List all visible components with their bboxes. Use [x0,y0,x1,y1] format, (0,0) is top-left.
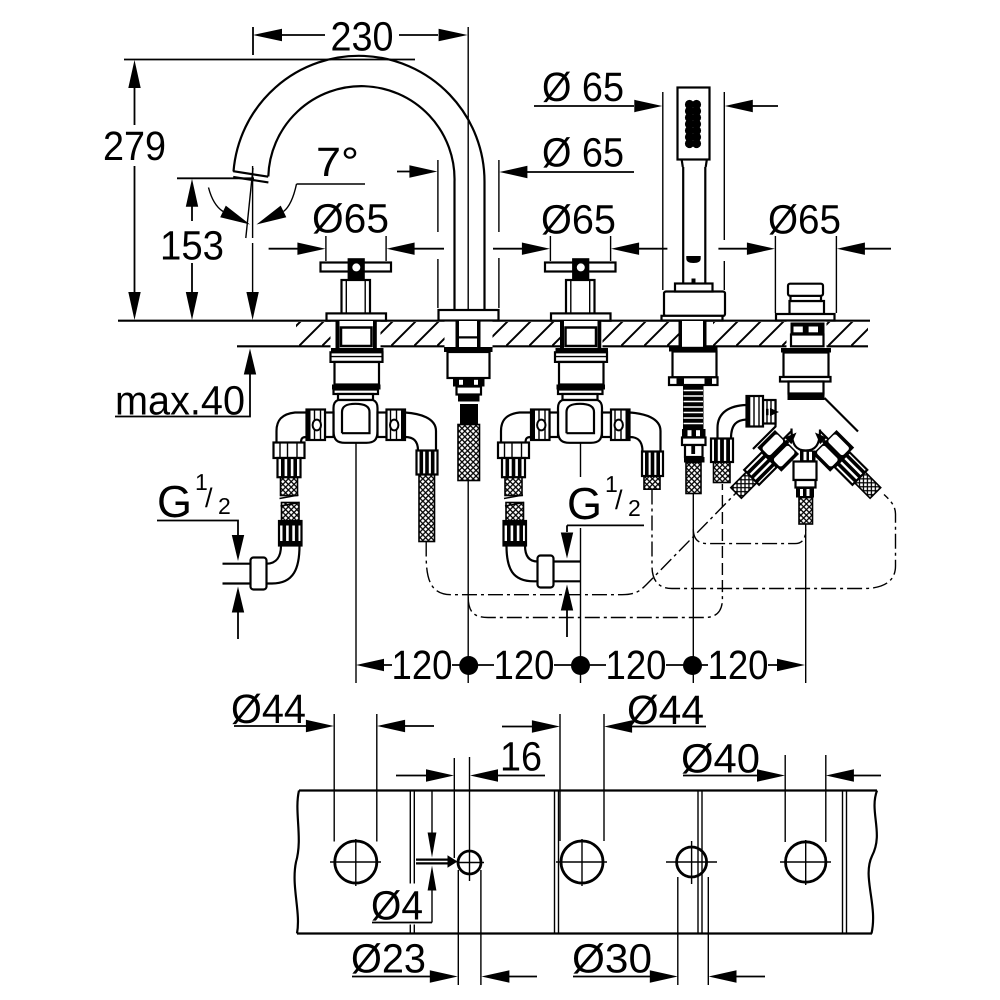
svg-text:2: 2 [218,493,231,519]
svg-text:120: 120 [494,642,555,688]
segment divider 3 [698,791,702,934]
svg-text:230: 230 [331,14,394,60]
routing line D: right valve to diverter right arm [652,490,896,589]
segment divider 4 [843,791,847,934]
left hose upper [281,477,298,495]
svg-text:16: 16 [500,734,542,780]
shower head [678,88,710,160]
right G1/2 union nut [538,556,554,588]
dimension D65 diverter [718,197,891,314]
spout escutcheon [439,310,499,321]
hole 3 (D44) [561,841,603,883]
diverter Y-body edges [753,398,858,449]
left elbow [277,413,307,444]
shower mounting block [673,352,717,378]
shower hose [686,463,701,494]
diverter body below deck [784,353,829,378]
D44 right dimension [502,687,706,841]
svg-text:Ø 65: Ø 65 [542,64,624,110]
diverter center line [805,524,807,683]
diverter side elbow nut [711,439,733,463]
hole 5 (D40) [786,842,826,882]
valve white collar [334,390,379,395]
segment divider 2 [555,791,559,934]
left valve deck opening walls [336,321,377,349]
dimension D65 spout escutcheon [397,130,634,309]
diverter left side port sleeve [763,400,776,424]
diverter cap [788,284,823,296]
bottom plan view of deck [231,686,881,985]
diverter side hose [714,462,731,483]
svg-text:Ø65: Ø65 [312,196,389,242]
left union nut [274,443,305,459]
deck / mounting surface [118,321,870,347]
svg-text:120: 120 [606,642,667,688]
diverter arch [792,429,821,451]
routing line C: shower supply to diverter center [693,529,805,544]
shower mounting flange [669,377,718,385]
band top line [299,789,877,791]
diverter below deck [711,323,887,684]
right valve escutcheon [551,313,611,320]
16 dimension [396,734,545,859]
valve shank body [335,362,380,385]
spout outlet cap (7 deg face) [233,171,268,182]
left valve cross handle [321,263,392,272]
left G1/2 port [223,564,251,584]
valve neck [338,394,373,400]
svg-text:/: / [615,485,623,515]
deck bottom line [237,345,868,347]
svg-text:Ø30: Ø30 [572,936,652,982]
deck top line [118,320,870,322]
left valve right compression fitting [417,451,438,475]
svg-text:120: 120 [708,642,769,688]
diverter side elbow [718,405,747,439]
label G 1/2 right [561,471,644,637]
hose break [280,495,300,506]
valve T-body [334,400,378,443]
max.40 dimension [115,349,256,424]
hole 4 (D30) [677,847,707,877]
spout (gooseneck) [233,56,498,321]
right valve body below deck [498,348,630,546]
diverter side port flow arrow [770,408,779,416]
shower handle [683,167,705,284]
svg-text:2: 2 [628,495,641,521]
svg-text:G: G [157,476,192,527]
left valve right hose [419,475,435,542]
shower deck opening walls [679,321,707,348]
diverter center hose [799,498,813,525]
D40 dimension [681,736,881,843]
valve cartridge arch [342,404,370,433]
hole 1 (D44) [335,841,377,883]
svg-text:7°: 7° [316,139,359,185]
shower head step [682,159,708,168]
valve black collar [332,385,381,390]
right hub nut [387,410,406,441]
valve shank black collar top [331,348,384,352]
spout tip projection line [246,243,258,320]
dimension D65 hand shower escutcheon [534,64,778,290]
right valve centerline [580,443,582,683]
D23 dimension [351,870,537,985]
svg-text:Ø 65: Ø 65 [542,130,624,176]
D30 dimension [572,877,765,985]
spout deck opening walls [456,321,481,348]
diverter flange black [781,348,831,353]
svg-text:Ø23: Ø23 [351,936,426,982]
shower hose nut [682,429,706,438]
svg-text:120: 120 [392,642,453,688]
svg-text:153: 153 [160,223,224,269]
diverter (above deck) [776,284,835,321]
diverter escutcheon [776,314,835,321]
left valve bottom elbow to G1/2 [267,546,300,584]
left valve stem [342,280,371,313]
shower cradle base [664,292,725,317]
left compression fitting [278,458,301,477]
left valve right elbow [405,413,436,451]
dimension 230 [253,14,468,60]
dimension D65 left valve [269,196,444,262]
right valve stem [566,280,595,313]
dimension D65 right valve [493,197,667,262]
right valve bottom elbow to G1/2 [507,546,538,582]
routing line A: left valve to diverter left arm [426,493,736,595]
left hose lower [282,503,300,522]
band bottom line [297,932,872,934]
hand shower (above deck) [662,88,726,321]
left sleeve [325,413,334,438]
diverter body [790,301,825,314]
left valve centerline [355,443,357,683]
spout centerline / 230 right extension [467,27,469,310]
dimension 279 [103,60,415,321]
deck hatch band [296,322,868,346]
D44 left dimension [231,686,434,842]
hand shower below deck [669,347,718,683]
right sleeve [378,413,387,438]
D4 dimension [371,791,458,929]
right valve right hose [644,476,660,489]
diverter center outlet fitting [800,451,816,462]
spout shank below deck [444,347,493,683]
shower hose body [685,445,703,457]
diverter shank in deck [791,323,825,335]
svg-text:279: 279 [103,123,166,169]
svg-text:/: / [205,483,213,513]
right valve deck opening walls [560,321,601,349]
shower handle spray stop [686,256,700,263]
left G1/2 union nut [251,558,267,590]
left lower fitting [279,521,302,546]
valve body below deck (shared shape), left valve [274,348,406,546]
left hub nut [307,410,326,441]
svg-text:Ø65: Ø65 [541,197,616,243]
shower supply line [692,494,694,684]
shower mounting black collar [669,347,718,352]
svg-text:G: G [567,478,602,529]
segment divider 1 [410,791,414,934]
right valve right elbow [630,413,661,452]
diverter right 45 arm [803,420,887,504]
valve shank lock nut [331,352,383,362]
diverter left side port nut [747,396,764,427]
hole 2 (D23) [458,851,481,874]
left valve (above deck) [321,258,392,320]
routing line B: spout supply to diverter side port [468,592,722,618]
left valve escutcheon [327,313,387,320]
right G1/2 port [554,562,581,582]
right valve cross handle [545,263,616,272]
shower head spray column [685,100,701,148]
right break line [869,791,877,934]
left break line [295,791,299,934]
dimension row 120x4 [356,642,805,688]
right valve (above deck) [545,258,616,320]
shower threaded rod [683,385,704,429]
svg-text:Ø65: Ø65 [768,197,841,243]
diverter left 45 arm [724,420,808,504]
spout supply line [467,481,469,684]
dimension 153 [160,178,254,320]
label G 1/2 left [157,469,244,639]
right valve right compression fitting [642,452,663,477]
spout outer curve [234,56,485,310]
7 degree annotation [209,139,366,238]
spout inner curve [268,86,454,310]
